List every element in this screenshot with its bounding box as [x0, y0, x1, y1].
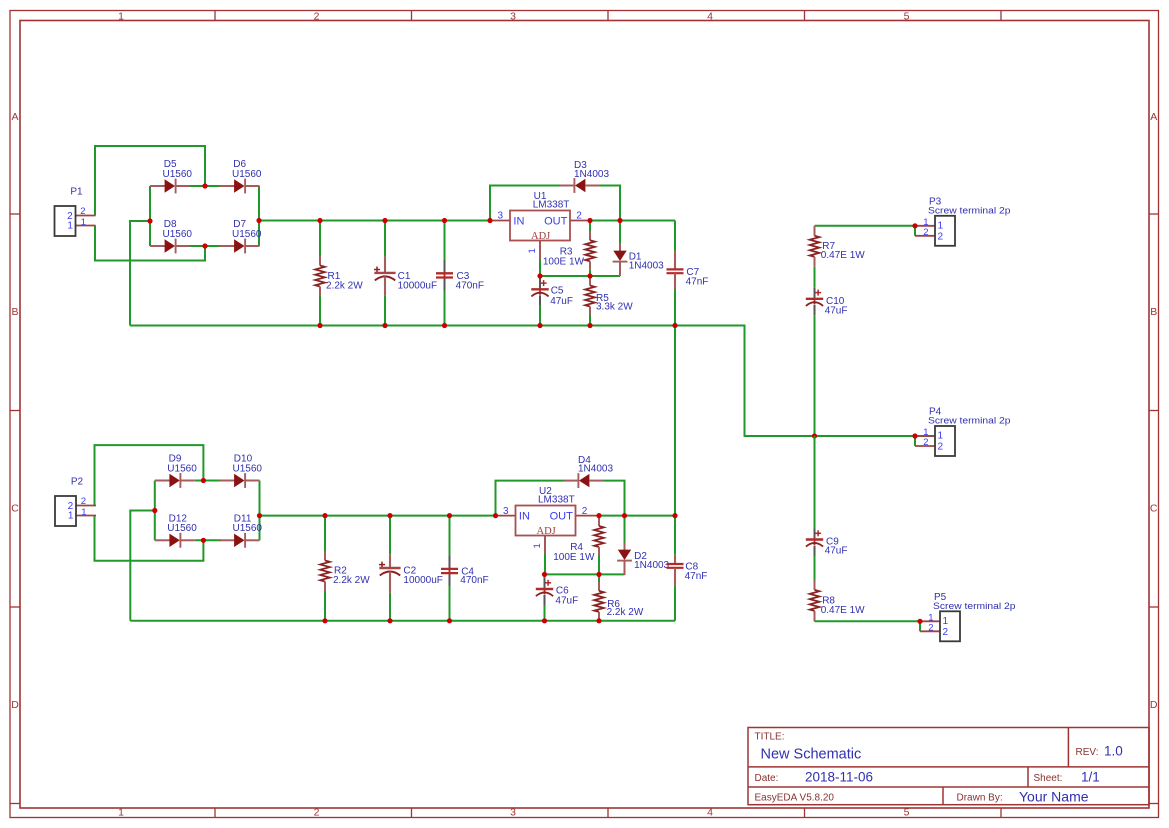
svg-text:U1560: U1560 — [163, 169, 193, 180]
svg-text:1: 1 — [118, 11, 124, 23]
svg-text:2: 2 — [943, 627, 949, 638]
svg-text:B: B — [11, 306, 18, 318]
svg-text:P2: P2 — [71, 477, 84, 488]
svg-text:0.47E 1W: 0.47E 1W — [821, 605, 865, 616]
svg-text:470nF: 470nF — [456, 280, 484, 291]
svg-text:Screw terminal 2p: Screw terminal 2p — [928, 416, 1011, 426]
svg-text:3: 3 — [510, 807, 516, 819]
svg-text:1: 1 — [118, 807, 124, 819]
svg-text:100E 1W: 100E 1W — [543, 257, 585, 268]
svg-text:47uF: 47uF — [825, 305, 848, 316]
svg-text:2.2k 2W: 2.2k 2W — [333, 575, 370, 586]
svg-text:0.47E 1W: 0.47E 1W — [821, 250, 865, 261]
svg-text:OUT: OUT — [550, 511, 574, 523]
svg-text:IN: IN — [519, 511, 530, 523]
svg-text:2: 2 — [938, 442, 944, 453]
svg-text:1: 1 — [943, 616, 949, 627]
svg-text:10000uF: 10000uF — [398, 280, 437, 291]
svg-text:U1560: U1560 — [232, 229, 262, 240]
svg-text:47uF: 47uF — [825, 546, 848, 557]
svg-text:C: C — [1150, 503, 1158, 515]
svg-text:3: 3 — [510, 11, 516, 23]
svg-text:2: 2 — [576, 211, 582, 222]
svg-text:1N4003: 1N4003 — [629, 261, 664, 272]
svg-text:LM338T: LM338T — [538, 495, 575, 506]
svg-text:2: 2 — [923, 437, 928, 448]
svg-text:D: D — [1150, 699, 1158, 711]
svg-text:2: 2 — [314, 11, 320, 23]
svg-text:U1560: U1560 — [232, 169, 262, 180]
svg-text:B: B — [1150, 306, 1157, 318]
svg-text:A: A — [11, 111, 18, 123]
svg-text:TITLE:: TITLE: — [755, 732, 785, 743]
svg-text:ADJ: ADJ — [537, 526, 556, 537]
svg-text:3: 3 — [497, 211, 503, 222]
svg-text:A: A — [1150, 111, 1157, 123]
svg-text:OUT: OUT — [544, 216, 568, 228]
svg-text:47nF: 47nF — [686, 276, 709, 287]
svg-text:5: 5 — [904, 807, 910, 819]
svg-text:2018-11-06: 2018-11-06 — [805, 770, 873, 785]
svg-text:C: C — [11, 503, 19, 515]
svg-text:Your Name: Your Name — [1019, 789, 1089, 805]
svg-text:10000uF: 10000uF — [403, 575, 442, 586]
svg-text:2: 2 — [80, 206, 85, 217]
svg-text:1: 1 — [532, 543, 543, 548]
svg-text:D: D — [11, 699, 19, 711]
svg-text:1: 1 — [938, 431, 944, 442]
svg-text:4: 4 — [707, 11, 713, 23]
svg-text:1: 1 — [67, 221, 73, 232]
svg-text:2: 2 — [938, 231, 944, 242]
svg-text:1: 1 — [81, 217, 86, 228]
svg-text:Screw terminal 2p: Screw terminal 2p — [933, 601, 1016, 611]
svg-text:1: 1 — [527, 248, 538, 253]
svg-text:2: 2 — [923, 227, 928, 238]
svg-text:470nF: 470nF — [460, 575, 488, 586]
svg-text:2: 2 — [582, 506, 588, 517]
svg-text:1: 1 — [68, 511, 74, 522]
svg-text:1N4003: 1N4003 — [578, 464, 613, 475]
svg-text:1/1: 1/1 — [1081, 770, 1100, 785]
svg-text:1N4003: 1N4003 — [634, 560, 669, 571]
svg-text:2.2k 2W: 2.2k 2W — [607, 607, 644, 618]
svg-text:1N4003: 1N4003 — [574, 169, 609, 180]
svg-text:100E 1W: 100E 1W — [553, 552, 595, 563]
svg-text:Sheet:: Sheet: — [1034, 773, 1063, 784]
svg-text:1.0: 1.0 — [1104, 744, 1123, 759]
svg-text:C5: C5 — [551, 285, 564, 296]
svg-text:IN: IN — [513, 216, 524, 228]
svg-text:3: 3 — [503, 506, 509, 517]
svg-text:1: 1 — [81, 507, 86, 518]
svg-text:U1560: U1560 — [163, 229, 193, 240]
svg-text:EasyEDA V5.8.20: EasyEDA V5.8.20 — [755, 793, 835, 804]
svg-text:Screw terminal 2p: Screw terminal 2p — [928, 205, 1011, 215]
svg-text:2: 2 — [81, 496, 86, 507]
svg-text:2: 2 — [928, 622, 933, 633]
svg-text:U1560: U1560 — [167, 523, 197, 534]
svg-text:LM338T: LM338T — [533, 200, 570, 211]
svg-text:ADJ: ADJ — [531, 231, 550, 242]
svg-text:U1560: U1560 — [167, 463, 197, 474]
svg-text:U1560: U1560 — [233, 463, 263, 474]
svg-text:5: 5 — [904, 11, 910, 23]
svg-text:3.3k 2W: 3.3k 2W — [596, 301, 633, 312]
svg-text:4: 4 — [707, 807, 713, 819]
svg-text:U1560: U1560 — [233, 523, 263, 534]
svg-text:2.2k 2W: 2.2k 2W — [326, 280, 363, 291]
svg-text:47nF: 47nF — [685, 571, 708, 582]
svg-text:P1: P1 — [70, 187, 83, 198]
svg-text:47uF: 47uF — [555, 595, 578, 606]
svg-text:Drawn By:: Drawn By: — [957, 793, 1003, 804]
svg-text:1: 1 — [938, 220, 944, 231]
svg-text:2: 2 — [314, 807, 320, 819]
svg-text:New Schematic: New Schematic — [761, 747, 862, 763]
svg-text:Date:: Date: — [755, 773, 779, 784]
svg-text:REV:: REV: — [1076, 747, 1099, 758]
svg-text:47uF: 47uF — [550, 296, 573, 307]
